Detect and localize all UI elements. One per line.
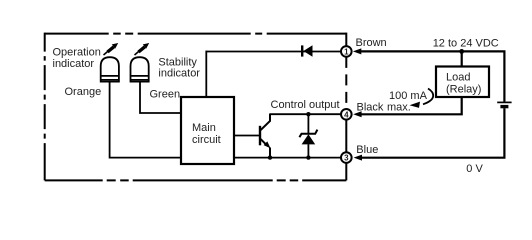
svg-text:indicator: indicator [53,58,95,70]
svg-text:4: 4 [344,110,349,119]
svg-text:Black: Black [357,101,384,113]
svg-text:Control output: Control output [271,99,340,111]
svg-text:12 to 24 VDC: 12 to 24 VDC [433,38,499,50]
svg-text:Load: Load [446,72,470,84]
svg-text:indicator: indicator [158,67,200,79]
svg-text:Main: Main [192,122,216,134]
svg-text:3: 3 [344,154,349,163]
svg-text:Orange: Orange [65,86,102,98]
svg-text:(Relay): (Relay) [446,83,481,95]
svg-text:max.: max. [387,101,411,113]
svg-text:0 V: 0 V [466,163,483,175]
svg-text:Brown: Brown [356,37,387,49]
svg-text:1: 1 [344,47,349,56]
svg-text:circuit: circuit [192,134,221,146]
svg-text:100 mA: 100 mA [389,90,428,102]
svg-text:Blue: Blue [356,144,378,156]
svg-text:Green: Green [150,89,181,101]
